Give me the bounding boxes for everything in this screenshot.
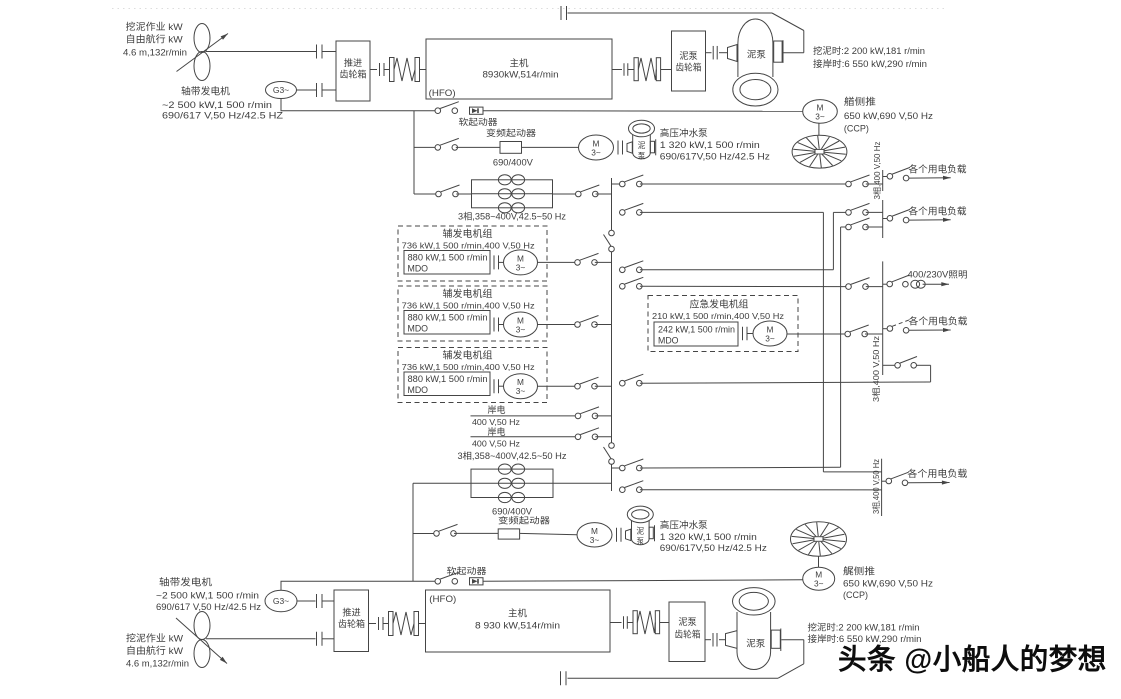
coupling free shaft end (top) <box>560 6 562 20</box>
svg-text:艉侧推: 艉侧推 <box>843 566 876 578</box>
frequency starter box (bottom) <box>498 529 519 539</box>
svg-text:4.6 m,132r/min: 4.6 m,132r/min <box>126 658 189 668</box>
wire feeder row y270 to riser B <box>640 269 834 271</box>
svg-text:3相,358~400V,42.5~50 Hz: 3相,358~400V,42.5~50 Hz <box>458 210 566 221</box>
svg-text:轴带发电机: 轴带发电机 <box>181 85 230 97</box>
breaker generator G2 <box>538 324 576 326</box>
flush pump 高压冲水泵 (bottom) <box>632 517 650 545</box>
svg-text:880 kW,1 500 r/min: 880 kW,1 500 r/min <box>408 374 488 384</box>
svg-text:辅发电机组: 辅发电机组 <box>443 227 493 240</box>
soft starter 软起动器 (bottom) <box>470 578 484 585</box>
svg-text:690/617 V,50 Hz/42.5 HZ: 690/617 V,50 Hz/42.5 HZ <box>162 111 284 121</box>
svg-text:650 kW,690 V,50 Hz: 650 kW,690 V,50 Hz <box>844 111 934 121</box>
svg-text:8930kW,514r/min: 8930kW,514r/min <box>483 70 559 81</box>
wire riser B <box>832 212 834 269</box>
coupling propeller-gearbox (bottom) <box>316 632 318 646</box>
pump inlet tab (bottom) <box>726 631 738 649</box>
svg-text:3相,400 V,50 Hz: 3相,400 V,50 Hz <box>871 459 881 514</box>
gearbox 推进齿轮箱 (top) <box>336 41 370 101</box>
wire G3 to gearbox coupling (top) <box>297 89 317 91</box>
svg-text:210 kW,1 500 r/min,400 V,50 Hz: 210 kW,1 500 r/min,400 V,50 Hz <box>652 311 784 321</box>
node junction 690V riser bottom <box>412 483 414 581</box>
stern thruster impeller (CPP) <box>791 522 847 557</box>
svg-text:650 kW,690 V,50 Hz: 650 kW,690 V,50 Hz <box>843 578 934 588</box>
svg-text:泥泵: 泥泵 <box>679 50 697 61</box>
svg-text:3相,358~400V,42.5~50 Hz: 3相,358~400V,42.5~50 Hz <box>458 450 568 461</box>
wire propeller shaft (top) <box>206 51 316 53</box>
svg-text:880 kW,1 500 r/min: 880 kW,1 500 r/min <box>408 253 488 263</box>
svg-text:400 V,50 Hz: 400 V,50 Hz <box>472 417 520 427</box>
wire thruster motor to impeller (bottom) <box>818 556 820 567</box>
transformer T1 690/400 (top) <box>456 193 471 195</box>
coupling pumpgearbox-pump (bottom) <box>705 639 711 641</box>
shaft generator G3 (top) <box>266 82 297 99</box>
wire propeller shaft (bottom) <box>206 638 316 640</box>
breaker row y184 at sub-bus <box>846 181 852 187</box>
svg-text:3~: 3~ <box>516 262 526 272</box>
svg-text:MDO: MDO <box>408 385 429 395</box>
svg-text:自由航行 kW: 自由航行 kW <box>126 33 183 45</box>
svg-text:齿轮箱: 齿轮箱 <box>675 629 701 640</box>
wire feeder row y286 <box>640 285 846 287</box>
transformer T2 690/400 (bottom) <box>413 482 471 484</box>
frequency starter box (top) <box>500 142 522 154</box>
svg-text:岸电: 岸电 <box>488 426 506 437</box>
svg-text:自由航行 kW: 自由航行 kW <box>126 645 183 657</box>
svg-text:3相,400 V,50 Hz: 3相,400 V,50 Hz <box>872 142 882 200</box>
svg-text:泵: 泵 <box>636 537 644 546</box>
dredge pump 泥泵 (bottom) <box>737 612 771 670</box>
svg-text:3~: 3~ <box>590 535 600 545</box>
motor M emergency genset <box>753 321 787 346</box>
breaker transformer feed (top) <box>414 193 436 195</box>
node junction 690V riser top <box>413 111 415 194</box>
wire to bow thruster motor <box>483 110 803 113</box>
svg-text:齿轮箱: 齿轮箱 <box>338 618 365 629</box>
wire G3 output rise (bottom) <box>281 581 435 590</box>
breaker bus feeder row y468 <box>612 467 620 469</box>
svg-text:MDO: MDO <box>408 324 429 334</box>
breaker generator G1 <box>538 261 576 263</box>
bus sub-switchboard A (top right) <box>882 170 884 191</box>
wire feeder row y184 <box>640 183 846 185</box>
generator set G2 辅发电机组 <box>398 286 547 341</box>
svg-text:泥: 泥 <box>638 141 646 150</box>
svg-text:3相,400 V,50 Hz: 3相,400 V,50 Hz <box>871 336 881 402</box>
feeder branch loads B <box>883 218 888 220</box>
coupling G3-gearbox (top) <box>316 83 318 97</box>
svg-text:推进: 推进 <box>342 607 360 618</box>
motor M stern thruster <box>803 567 835 590</box>
svg-text:泥泵: 泥泵 <box>746 638 765 649</box>
svg-text:挖泥时:2 200 kW,181 r/min: 挖泥时:2 200 kW,181 r/min <box>813 45 925 56</box>
propeller P2 (bottom CPP) <box>194 612 210 640</box>
svg-text:3~: 3~ <box>814 579 824 589</box>
svg-text:艏侧推: 艏侧推 <box>844 96 877 108</box>
wire riser A to lower sub-bus <box>823 471 881 473</box>
transformer lighting 400/230V <box>911 280 920 288</box>
faint separator dots (scan artifact) <box>112 8 948 10</box>
feeder branch emergency loads (dashed blade) <box>883 328 888 330</box>
coupling flushpump (bottom) <box>616 528 618 542</box>
svg-text:轴带发电机: 轴带发电机 <box>159 577 213 589</box>
svg-text:690/617 V,50 Hz/42.5 Hz: 690/617 V,50 Hz/42.5 Hz <box>156 602 261 612</box>
svg-text:690/400V: 690/400V <box>493 157 533 167</box>
feeder branch loads A <box>883 176 888 178</box>
svg-text:辅发电机组: 辅发电机组 <box>443 348 493 361</box>
pump outlet tab (bottom) <box>771 630 780 648</box>
svg-text:泥泵: 泥泵 <box>678 616 696 627</box>
svg-text:应急发电机组: 应急发电机组 <box>690 297 749 310</box>
svg-text:(HFO): (HFO) <box>429 594 456 604</box>
breaker bus feeder row y270 <box>620 267 626 273</box>
svg-text:736 kW,1 500 r/min,400 V,50 Hz: 736 kW,1 500 r/min,400 V,50 Hz <box>402 362 535 372</box>
breaker emergency tie <box>883 364 895 366</box>
breaker bus feeder row y184 <box>612 183 620 185</box>
svg-text:泥: 泥 <box>636 527 644 536</box>
breaker row y286 at sub-bus C <box>846 284 852 290</box>
svg-text:主机: 主机 <box>508 607 527 619</box>
svg-text:880 kW,1 500 r/min: 880 kW,1 500 r/min <box>408 313 488 323</box>
coupling G3-gearbox (bottom) <box>316 594 318 608</box>
svg-text:~2 500 kW,1 500 r/min: ~2 500 kW,1 500 r/min <box>162 100 272 110</box>
svg-text:(CCP): (CCP) <box>844 123 869 133</box>
svg-text:主机: 主机 <box>510 57 529 69</box>
motor M bow thruster <box>803 100 838 124</box>
wire thruster motor to impeller <box>818 123 820 135</box>
svg-text:3~: 3~ <box>516 386 526 396</box>
bus main 400V switchboard (vertical) <box>611 178 613 236</box>
coupling propeller-gearbox (top) <box>316 45 318 59</box>
breaker riser B to sub-bus B <box>846 210 852 216</box>
wire genset G3b long feeder <box>621 383 623 386</box>
svg-text:~2 500 kW,1 500 r/min: ~2 500 kW,1 500 r/min <box>156 591 259 601</box>
elastic coupling gearbox-engine (top) <box>370 69 377 71</box>
elastic coupling engine-pumpgearbox (top) <box>612 69 622 71</box>
bus-tie breaker upper <box>609 230 615 236</box>
pump outlet tab (top) <box>774 41 782 62</box>
wire pump through-shaft loop (top) <box>784 52 804 54</box>
breaker soft-starter row (bottom) <box>435 579 441 585</box>
svg-text:接岸时:6 550 kW,290 r/min: 接岸时:6 550 kW,290 r/min <box>813 58 927 69</box>
wire feeder row y468 to riser C <box>640 466 841 469</box>
svg-text:3~: 3~ <box>815 111 825 121</box>
shaft generator G3 (bottom) <box>265 590 297 612</box>
breaker riser C to sub-bus B <box>846 224 852 230</box>
coupling flushpump (top) <box>617 141 619 155</box>
svg-text:736 kW,1 500 r/min,400 V,50 Hz: 736 kW,1 500 r/min,400 V,50 Hz <box>402 300 535 310</box>
svg-text:接岸时:6 550 kW,290 r/min: 接岸时:6 550 kW,290 r/min <box>808 633 922 644</box>
bus sub-switchboard B (right) <box>882 200 884 238</box>
svg-text:8 930 kW,514r/min: 8 930 kW,514r/min <box>475 620 560 631</box>
coupling pumpgearbox-pump (top) <box>706 52 712 54</box>
breaker transformer T1 to bus <box>576 191 582 197</box>
svg-text:各个用电负载: 各个用电负载 <box>909 163 967 175</box>
propeller P1 (top CPP) <box>194 24 210 53</box>
svg-text:3~: 3~ <box>591 148 601 158</box>
breaker bus feeder row y212 <box>620 210 626 216</box>
svg-text:690/617V,50 Hz/42.5 Hz: 690/617V,50 Hz/42.5 Hz <box>660 152 771 162</box>
breaker frequency-starter row (bottom) <box>413 533 434 535</box>
main engine ME1 (top) <box>426 39 612 99</box>
svg-text:690/617V,50 Hz/42.5 Hz: 690/617V,50 Hz/42.5 Hz <box>660 543 768 553</box>
svg-text:736 kW,1 500 r/min,400 V,50 Hz: 736 kW,1 500 r/min,400 V,50 Hz <box>402 240 535 250</box>
breaker generator G3b <box>538 385 576 387</box>
elastic coupling gearbox-engine (bottom) <box>369 623 377 625</box>
svg-text:软起动器: 软起动器 <box>459 116 498 127</box>
motor M flush pump (bottom) <box>577 523 612 547</box>
wire pump through-shaft loop (bottom) <box>781 639 804 641</box>
breaker emergency generator <box>787 333 845 335</box>
svg-text:(HFO): (HFO) <box>429 88 456 98</box>
svg-text:软起动器: 软起动器 <box>447 565 487 576</box>
svg-text:3~: 3~ <box>516 325 526 335</box>
svg-text:各个用电负载: 各个用电负载 <box>909 205 967 217</box>
bus sub-switchboard C (emergency) <box>882 261 884 375</box>
svg-text:变频起动器: 变频起动器 <box>486 127 536 138</box>
generator set G1 辅发电机组 <box>398 226 547 281</box>
svg-text:400/230V照明: 400/230V照明 <box>908 270 968 280</box>
svg-text:各个用电负载: 各个用电负载 <box>909 316 969 328</box>
bus sub-switchboard D (bottom right) <box>881 459 883 516</box>
feeder branch loads D <box>882 480 887 482</box>
wire feeder row y212 to tie riser <box>640 211 824 213</box>
svg-text:G3~: G3~ <box>273 85 289 95</box>
svg-text:变频起动器: 变频起动器 <box>498 515 550 526</box>
wire G3 to gearbox coupling (bottom) <box>297 600 316 602</box>
breaker soft-starter row (top) <box>435 108 441 114</box>
svg-text:MDO: MDO <box>408 264 429 274</box>
gearbox 泥泵齿轮箱 (bottom) <box>669 602 705 662</box>
svg-text:推进: 推进 <box>344 57 362 68</box>
svg-text:泥泵: 泥泵 <box>747 49 766 60</box>
wire G3 output drop (top) <box>281 99 435 111</box>
generator set G3b 辅发电机组 <box>398 348 547 403</box>
gearbox 推进齿轮箱 (bottom) <box>334 590 369 652</box>
breaker frequency-starter row (top) <box>414 146 435 148</box>
wire riser C <box>840 227 842 467</box>
emergency generator set 应急发电机组 <box>648 296 798 352</box>
main engine ME2 (bottom) <box>426 590 611 652</box>
coupling free shaft end (bottom) <box>560 671 562 685</box>
bus-tie breaker lower <box>609 443 615 449</box>
svg-text:高压冲水泵: 高压冲水泵 <box>660 127 708 139</box>
svg-text:各个用电负载: 各个用电负载 <box>907 468 968 480</box>
wire emergency tie loop <box>917 364 931 366</box>
svg-text:泵: 泵 <box>638 151 646 160</box>
breaker bus feeder row y490 <box>620 487 626 493</box>
bow thruster impeller (CPP) <box>792 135 847 168</box>
wire to stern thruster motor <box>483 580 803 582</box>
svg-text:头条 @小船人的梦想: 头条 @小船人的梦想 <box>838 643 1107 676</box>
motor M flush pump (top) <box>579 135 614 160</box>
svg-text:1 320 kW,1 500 r/min: 1 320 kW,1 500 r/min <box>660 140 760 150</box>
svg-text:G3~: G3~ <box>273 596 289 606</box>
feeder branch 400/230V lighting <box>883 283 887 285</box>
wire feeder row y490 <box>640 489 882 491</box>
gearbox 泥泵齿轮箱 (top) <box>672 31 706 91</box>
dredge pump 泥泵 (top) <box>738 19 773 77</box>
svg-text:挖泥作业 kW: 挖泥作业 kW <box>126 21 183 33</box>
breaker bus feeder row y286 <box>620 284 626 290</box>
svg-text:4.6 m,132r/min: 4.6 m,132r/min <box>123 47 187 57</box>
svg-text:齿轮箱: 齿轮箱 <box>340 68 367 79</box>
svg-text:1 320 kW,1 500 r/min: 1 320 kW,1 500 r/min <box>660 532 757 542</box>
svg-text:242 kW,1 500 r/min: 242 kW,1 500 r/min <box>658 324 735 334</box>
flush pump 高压冲水泵 (top) <box>633 131 651 159</box>
svg-text:挖泥作业 kW: 挖泥作业 kW <box>126 632 183 644</box>
svg-text:(CCP): (CCP) <box>843 590 868 600</box>
soft starter 软起动器 (top) <box>470 107 484 114</box>
svg-text:齿轮箱: 齿轮箱 <box>676 61 702 72</box>
wire tie riser A (long vertical) <box>822 212 824 472</box>
svg-text:MDO: MDO <box>658 336 679 346</box>
svg-text:岸电: 岸电 <box>488 404 506 415</box>
svg-text:3~: 3~ <box>765 334 775 344</box>
svg-text:挖泥时:2 200 kW,181 r/min: 挖泥时:2 200 kW,181 r/min <box>808 621 920 632</box>
svg-text:辅发电机组: 辅发电机组 <box>443 287 493 300</box>
svg-text:400 V,50 Hz: 400 V,50 Hz <box>472 439 520 449</box>
elastic coupling engine-pumpgearbox (bottom) <box>610 622 622 624</box>
svg-text:高压冲水泵: 高压冲水泵 <box>660 520 708 532</box>
pump inlet tab (top) <box>728 45 738 62</box>
